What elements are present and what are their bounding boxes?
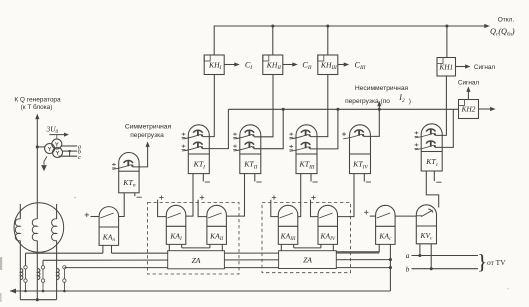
ground - TV neutral earth arrow [44,156,47,164]
dashed box - filter block 2 (KA_III KA_IV ZA) [262,203,351,273]
wire - return bus (secondary common) [10,290,390,292]
wire - current wire 2 (phase b secondary) [43,259,390,262]
relay KT_II (time relay, two contacts) [240,125,261,154]
generator phase lead 3 [56,204,58,219]
svg-text:Сигнал: Сигнал [474,64,496,71]
relay KA_II (current relay) [207,205,227,244]
wire - KA_c contact left stub [370,215,376,217]
relay KA_III (current relay) [278,205,298,244]
svg-text:ZA: ZA [192,256,201,265]
generator phase lead 1 [19,204,21,219]
plus mark - KA_п contact [85,214,89,216]
wire - jumper b to c [69,151,71,156]
wire - KT_п coil left leg down to KA_п contact [119,193,125,217]
svg-text:): ) [409,98,411,105]
relay KT_п (time relay, one contact) [119,153,139,172]
wire/arrow - KT_п contact output up (Симметричная перегрузка) [133,145,148,167]
wire - TV output a [62,145,78,147]
node - signal bus junction KT_IV [378,108,381,111]
relay KT_IV (time relay, one contact) [350,125,371,154]
node - signal bus junction KT_III [336,108,339,111]
wire - plus lead to KA_III contact [271,200,279,217]
wire - TV output c [59,155,78,157]
wire - KT_IV coil right leg (minus) [363,174,365,182]
node - TV tap on generator lead [36,145,39,148]
relay KH_I (output relay box) [204,55,224,75]
wire - KT_III coil right leg (minus) [310,174,312,182]
current transformer CT3 [57,269,60,280]
arrow/wire - KH1 output to Сигнал [456,66,468,68]
svg-text:}: } [477,250,487,274]
arrow - К Q генератора [35,114,39,120]
wire - KT_I lower contact up to signal bus [202,109,228,148]
svg-text:от TV: от TV [487,258,506,267]
node - KV_c on line a [418,254,421,257]
relay KA_п (current relay) [99,207,119,246]
wire - KA_c contact to KV_c contact [395,215,416,217]
winding symbol marks inside TV circles [55,142,58,146]
generator winding - phase 2 coil [32,219,37,241]
wire - tap to TV [37,146,45,148]
wire - KT_c coil left leg down to KV_c dome [426,171,438,208]
wire - KT_III lower contact to signal bus [310,109,338,149]
wire - line b from TV [412,268,479,270]
wire - KH_II leg down to KT_II upper contact [254,75,273,137]
plus mark - KA_III [272,197,276,199]
arrow/wire - KH_III output to C_III [338,64,346,66]
relay KT_I (time relay, two contacts) [188,125,209,154]
wire - KV_c coil left leg to line a [419,244,421,256]
current transformer CT1 [20,269,23,280]
wire - KA_п contact left stub [91,216,100,218]
plus mark - KA_c contact [364,211,368,213]
arrow - KH2 up to Сигнал [467,90,469,100]
plus mark - KT_IV contact [342,133,346,135]
relay KH_III (output relay box) [318,55,338,75]
plus mark - KA_II [200,197,204,199]
wire - KH_III leg down to KT_III upper contact [310,75,328,137]
arrow/wire - KH2 output right [479,108,493,110]
generator winding - phase 3 coil [52,219,57,241]
relay KA_c (current relay) [376,205,396,244]
wire - KA_c coil left leg to current wire [336,244,379,251]
wire - KH_III top leg [327,26,329,55]
svg-text:Несимметричная: Несимметричная [355,85,409,92]
contact blade - KV_c [416,215,422,217]
wire - KT_II coil left leg down to KA_II contact [227,174,245,217]
relay KT_c (time relay, two contacts) [421,124,442,152]
wire - series link KA_III to KA_IV [294,247,321,249]
svg-text:Сигнал: Сигнал [458,79,480,86]
wire - KA_III coil legs to ZA [280,244,282,250]
wire - KT_c lower contact up to signal bus [435,109,453,147]
wire - series link KA_I to KA_II [182,247,210,249]
node - KV_c on line b [430,267,433,270]
wire - KA_IV coil legs to ZA [320,244,322,248]
generator phase lead 2 (to TV) [36,117,38,219]
wire - KT_п coil right leg (minus) [134,193,136,196]
svg-text:c: c [78,154,81,161]
transformer TV winding circle 2 [45,144,55,154]
wire - plus lead to KA_I contact [158,200,167,217]
wire - KT_II coil right leg (minus) [254,174,256,182]
wire - signal bus to KH2 [228,108,458,110]
wire - KV_c coil right leg to line b [430,244,432,269]
svg-text:b: b [406,266,410,274]
node - bus junction above KH_III [326,24,329,27]
node - phase wire3 joins KA_c return [389,266,392,269]
node - phase wire2 joins KA_c return [389,258,392,261]
wire - KA_I coil legs to ZA [168,244,170,250]
arrow - return bus earth (left) [10,289,16,294]
wire - generator star point [20,299,56,301]
svg-text:a: a [406,252,410,260]
wire - top trip bus [214,26,486,55]
wire - plus lead to KA_IV contact [311,200,319,217]
wire - KH1 top leg [446,26,448,58]
svg-text:Симметричная: Симметричная [125,123,172,130]
relay KH_II (output relay box) [263,55,283,75]
current transformer CT2 [37,269,40,280]
node - bus junction above KH_II [271,24,274,27]
wire - KH_I leg down to KT_I upper contact [202,75,214,137]
wire - KA_п coil left leg [102,245,104,253]
transformer TV winding circle 1 [52,139,62,149]
svg-text:Откл.: Откл. [498,17,515,24]
generator stator circle [14,203,64,253]
svg-text:(к Т блока): (к Т блока) [21,103,53,111]
wire - KA_c coil right leg down to return bus [389,244,391,291]
transformer TV winding circle 3 [53,148,63,158]
svg-text:ZA: ZA [303,256,312,265]
svg-text:KH2: KH2 [461,105,476,114]
svg-text:перегрузка: перегрузка [130,132,164,139]
svg-text:К Q генератора: К Q генератора [14,97,61,104]
plus mark - KA_IV [311,197,315,199]
wire - KA_II coil legs to ZA [209,244,211,248]
arrow - 3U0 output [49,134,65,136]
svg-text:перегрузка (по: перегрузка (по [345,98,390,105]
block ZA 1 (resistor block) [168,251,225,269]
relay KA_IV (current relay) [318,205,338,244]
block ZA 2 (resistor block) [279,251,337,269]
generator winding - phase 1 coil [15,219,20,241]
node - star point junction [36,298,39,301]
wire - KT_IV contact to signal bus with up arrow [363,104,379,136]
relay KH2 (signal relay box) [459,100,479,119]
plus mark - KA_I [159,197,163,199]
arrow/wire - KH_II output to C_II [283,64,294,66]
svg-text:KH1: KH1 [438,62,453,71]
wire - current wire 1 (phase a secondary) [26,252,103,254]
wire - TV output b [62,150,77,152]
node - junction on line b [68,150,70,152]
wire - current wire 3 (phase c secondary) [64,267,390,269]
wire - KT_IV coil left leg down to KA_IV contact [337,174,354,217]
arrow/wire - KH_I output to C_I [224,64,236,66]
wire - line a from TV [412,255,479,257]
wire - KT_II lower contact to signal bus [254,109,284,148]
wire - KH_II top leg [272,26,274,55]
wire - KT_c coil right leg (minus) [433,171,435,181]
wire - KT_I coil left leg down to KA_I contact [186,174,193,217]
dashed box - filter block 1 (KA_I KA_II ZA) [148,203,240,275]
relay KA_I (current relay) [166,205,186,244]
wire - plus lead to KA_II contact [198,200,207,217]
relay KT_III (time relay, two contacts) [296,125,317,154]
relay KH1 (signal relay box) [437,58,456,77]
node - signal bus junction KT_II [282,108,285,111]
node - bus junction above KH1 [445,24,448,27]
scan artifact smudge left edge [0,257,2,270]
relay KV_c (voltage relay) [416,205,436,244]
wire - KT_III coil left leg down to KA_III contact [298,174,301,217]
wire - KH1 leg down to KT_c upper contact [435,76,446,135]
wire - KA_п coil right leg [111,245,113,253]
wire - KT_I coil right leg (minus) [202,174,204,182]
